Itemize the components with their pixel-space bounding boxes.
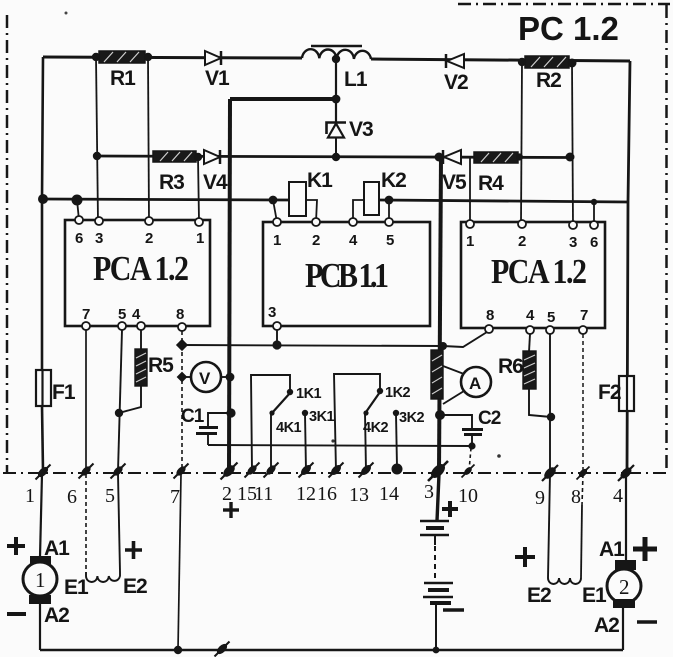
contact 4K1 pivot wire to terminal 11: [269, 410, 274, 415]
svg-text:3: 3: [268, 304, 276, 321]
svg-text:A: A: [469, 374, 481, 393]
pin 4 right PCA: [526, 326, 534, 334]
node V3 bottom: [332, 153, 340, 161]
node R2 left: [518, 58, 526, 66]
wire pin5 left down to terminal 5: [118, 330, 122, 471]
svg-text:V2: V2: [444, 71, 468, 94]
wire pin7 left down to terminal 6: [85, 330, 87, 471]
wire PCB pin3 to bus345: [276, 330, 278, 345]
wire bottom rail: [40, 649, 623, 651]
capacitor C2: [440, 408, 501, 446]
node R2 right: [568, 59, 577, 68]
svg-text:A2: A2: [594, 614, 619, 637]
svg-text:7: 7: [580, 307, 588, 324]
minus motor1: [7, 612, 26, 616]
node battery bottom rail: [433, 647, 440, 654]
svg-text:E1: E1: [582, 584, 607, 607]
contact 3K2 stub to terminal 14: [393, 410, 399, 416]
fuse F1: [36, 370, 76, 406]
terminal 3: [428, 461, 448, 481]
plus motor1: [7, 537, 25, 555]
svg-text:1K2: 1K2: [385, 385, 411, 401]
svg-text:1K1: 1K1: [296, 386, 322, 402]
node second rail left: [93, 152, 101, 160]
wire C2 dashed to terminal 10: [469, 448, 471, 471]
wire R1right to pin2 vertical: [148, 57, 149, 221]
wire K2 tap to PCB pin5: [388, 200, 390, 222]
wire R1left to pin3 vertical: [96, 57, 98, 221]
svg-text:1: 1: [466, 233, 474, 250]
node bus K2 tap: [385, 196, 394, 205]
wire top rail right part: [371, 59, 630, 61]
frame right dash-dot: [665, 5, 668, 473]
svg-text:4K2: 4K2: [363, 420, 389, 436]
pin 1 right PCA: [466, 220, 474, 228]
node R4 right: [516, 153, 523, 160]
terminal 10: [462, 465, 475, 478]
wire R5 bottom bend to pin5 wire: [119, 386, 141, 413]
svg-text:R3: R3: [159, 171, 184, 194]
pin 2 PCB: [312, 218, 320, 226]
svg-text:11: 11: [254, 483, 273, 505]
module PCA 1.2 right: [461, 222, 605, 328]
node bus pin6 right tap: [591, 199, 597, 205]
wire terminal 7 to bottom rail: [178, 474, 181, 650]
diode V5: [442, 150, 467, 194]
motor 1: [23, 556, 57, 604]
wire pin6 tap down: [77, 200, 79, 220]
terminal row dash-dot line: [3, 472, 667, 474]
terminal 12: [299, 463, 314, 478]
wire top right corner down through F2 to terminal 4: [627, 61, 630, 471]
svg-text:F2: F2: [598, 381, 621, 404]
plus motor2: [633, 537, 657, 561]
plus field1: [125, 541, 142, 559]
wire terminal 1 to motor 1: [40, 474, 42, 557]
wire left vertical rail: [42, 57, 43, 371]
svg-text:V3: V3: [349, 118, 373, 141]
svg-text:4: 4: [132, 306, 141, 323]
svg-text:V5: V5: [442, 171, 467, 194]
field winding motor1: [86, 572, 120, 582]
svg-text:2: 2: [222, 483, 232, 505]
svg-text:R1: R1: [110, 67, 136, 90]
wire K1 right lead to PCB pin2: [306, 200, 317, 222]
svg-text:5: 5: [118, 306, 126, 323]
pin 6 right PCA: [590, 221, 598, 229]
switch mark bottom rail: [215, 642, 230, 657]
wire motor1 to bottom rail: [39, 604, 41, 650]
node bus345 at mid vertical: [439, 342, 447, 350]
pin 7 right PCA: [579, 326, 587, 334]
svg-text:L1: L1: [344, 68, 368, 91]
wire thick mid vertical V5 to terminal 3: [439, 157, 441, 471]
node R1 right: [144, 53, 152, 61]
wire pin5 right down to terminal 9: [549, 334, 551, 471]
diode V4: [203, 150, 228, 194]
wire pin7 right dashed down to terminal 8: [582, 334, 584, 471]
svg-text:K2: K2: [381, 169, 406, 192]
contact blade K2: [366, 392, 380, 412]
svg-text:C1: C1: [181, 406, 205, 427]
svg-text:14: 14: [379, 483, 399, 505]
minus motor2: [637, 620, 657, 623]
svg-text:10: 10: [458, 485, 478, 507]
pin 3 left PCA: [95, 217, 103, 225]
field winding motor2: [548, 578, 581, 584]
pin 3 right PCA: [569, 221, 577, 229]
zener diode V3: [327, 118, 374, 156]
wire bus345: [182, 332, 487, 347]
contact blade K1: [272, 393, 290, 413]
pin 2 right PCA: [518, 220, 526, 228]
svg-text:C2: C2: [478, 408, 501, 429]
capacitor C1: [181, 406, 231, 445]
frame top dash-dot: [458, 3, 670, 6]
pin 1 left PCA: [195, 218, 203, 226]
module PCA 1.2 left: [65, 220, 210, 326]
wire thick link horizontal: [230, 97, 336, 101]
node bus K1 tap: [269, 196, 278, 205]
svg-text:1: 1: [25, 485, 35, 507]
wire terminal 4 to motor 2: [625, 474, 627, 561]
svg-text:2: 2: [518, 233, 526, 250]
pin 3 PCB: [273, 322, 281, 330]
svg-text:6: 6: [590, 234, 598, 251]
svg-text:3K1: 3K1: [309, 409, 335, 425]
wire terminal 6 dashed to field coil E1: [85, 474, 87, 572]
svg-text:4: 4: [349, 232, 358, 249]
svg-text:4: 4: [526, 307, 535, 324]
terminal 5: [111, 464, 126, 479]
pin 8 left PCA: [178, 323, 186, 331]
terminal 1: [36, 465, 51, 480]
wire R6 bottom bend to pin5 wire: [529, 389, 551, 417]
fuse F2: [598, 376, 634, 411]
resistor R4: [474, 152, 518, 195]
wire PCB pin4 to K2 left lead: [353, 200, 364, 222]
svg-text:7: 7: [170, 486, 180, 508]
contact group K2 frame: [334, 374, 380, 471]
wire bus left segment: [42, 199, 290, 200]
svg-text:5: 5: [386, 232, 394, 249]
terminal 8: [577, 467, 590, 480]
wire pin6 right tap down: [593, 202, 595, 225]
node bus at left rail: [38, 194, 48, 204]
pin 4 left PCA: [137, 322, 145, 330]
svg-text:8: 8: [486, 307, 494, 324]
svg-text:4K1: 4K1: [276, 420, 302, 436]
svg-text:A1: A1: [599, 538, 625, 561]
svg-text:5: 5: [105, 485, 115, 507]
svg-text:F1: F1: [52, 381, 76, 404]
wire terminal 5 to field coil E2: [118, 474, 120, 572]
svg-text:8: 8: [176, 306, 184, 323]
inductor L1: [302, 46, 371, 91]
relay coil K2: [364, 169, 406, 215]
plus below terminal 2: [223, 502, 239, 518]
wire terminal 8 to field coil E1 motor2: [582, 474, 583, 505]
voltmeter V: [184, 362, 229, 392]
svg-text:2: 2: [312, 232, 320, 249]
svg-text:E2: E2: [123, 575, 147, 598]
terminal 15: [245, 463, 260, 478]
svg-text:6: 6: [67, 486, 77, 508]
svg-text:K1: K1: [307, 169, 333, 192]
node bus pin6 tap: [72, 195, 83, 206]
scan speck: [331, 439, 334, 442]
wire V5 junction to pin1 right vertical: [469, 157, 471, 224]
svg-text:3: 3: [95, 230, 103, 247]
terminal 4: [618, 465, 634, 481]
resistor R2: [525, 56, 569, 92]
svg-text:PCA 1.2: PCA 1.2: [93, 249, 188, 287]
wire F1 to terminal 1: [42, 406, 43, 471]
svg-text:1: 1: [273, 232, 281, 249]
wire L1 tap down: [335, 59, 337, 124]
wire pin8 left dashed down to terminal 7: [181, 331, 183, 471]
node V right on thick rail: [226, 373, 235, 382]
resistor R3: [153, 151, 196, 194]
svg-text:R4: R4: [478, 172, 504, 195]
node C1 tap: [226, 408, 235, 417]
svg-text:3: 3: [569, 234, 577, 251]
svg-text:1: 1: [35, 568, 46, 592]
resistor R1: [99, 51, 145, 90]
node diamond bus345: [176, 339, 188, 351]
svg-text:12: 12: [296, 483, 316, 505]
wire thick left vertical to terminal 2: [229, 99, 230, 471]
scan speck: [65, 12, 68, 15]
wire second rail: [97, 156, 572, 158]
plus field2: [515, 547, 535, 567]
svg-text:E1: E1: [64, 576, 89, 599]
svg-text:7: 7: [82, 306, 90, 323]
svg-text:R2: R2: [536, 69, 561, 92]
svg-text:2: 2: [145, 230, 153, 247]
svg-text:2: 2: [619, 575, 630, 599]
wire top rail left part: [43, 57, 302, 58]
pin 2 left PCA: [145, 217, 153, 225]
node bottom rail term7: [174, 646, 182, 654]
pin 6 left PCA: [75, 216, 83, 224]
diode V1: [205, 51, 230, 90]
svg-text:R5: R5: [148, 354, 174, 377]
contact 1K1 fixed: [287, 389, 293, 395]
pin 5 left PCA: [118, 322, 126, 330]
terminal 9: [542, 465, 558, 481]
pin 1 PCB: [273, 218, 281, 226]
module PCB 1.1: [263, 222, 430, 326]
node L1 tap: [332, 55, 340, 63]
wire R2right to pin3 right vertical: [572, 63, 573, 225]
svg-text:V4: V4: [203, 171, 228, 194]
pin 4 PCB: [349, 218, 357, 226]
svg-text:V: V: [199, 369, 211, 388]
pin 7 left PCA: [82, 322, 90, 330]
terminal 14 dot: [392, 464, 403, 475]
node R1 left: [92, 53, 100, 61]
svg-text:R6: R6: [498, 355, 523, 378]
svg-text:3: 3: [424, 481, 434, 503]
relay coil K1: [289, 169, 333, 216]
node thick link at L1 tap line: [332, 95, 341, 104]
wire capacitor link rail y445: [208, 445, 472, 446]
ammeter A: [443, 366, 491, 404]
node PCB pin3 bus: [272, 340, 281, 349]
node V5 left: [435, 153, 444, 162]
svg-text:9: 9: [535, 487, 545, 509]
contact 1K2 fixed: [377, 388, 383, 394]
resistor R6: [498, 334, 536, 389]
node C2 bottom: [468, 442, 475, 449]
terminal 7: [174, 464, 189, 479]
contact 4K2 pivot wire to terminal 13: [363, 410, 368, 415]
motor 2: [607, 560, 641, 608]
svg-text:3K2: 3K2: [399, 410, 425, 426]
svg-text:PCA 1.2: PCA 1.2: [491, 252, 586, 290]
contact group K1 frame: [251, 375, 290, 471]
svg-text:V1: V1: [205, 67, 230, 90]
svg-text:1: 1: [196, 230, 204, 247]
node C2 tap: [435, 410, 445, 420]
wire terminal 9 to field coil E2 motor2: [548, 474, 550, 578]
frame left dash-dot: [6, 15, 9, 473]
node second rail right: [566, 153, 575, 162]
pin 8 right PCA: [485, 325, 493, 333]
svg-text:A2: A2: [44, 604, 69, 627]
pin 5 right PCA: [546, 326, 554, 334]
svg-text:4: 4: [613, 485, 623, 507]
svg-text:16: 16: [317, 483, 337, 505]
terminal 6: [79, 464, 94, 479]
wire bus tap to PCB pin1: [273, 200, 277, 222]
svg-text:5: 5: [547, 309, 555, 326]
node R5 join: [115, 409, 123, 417]
wire bus right segment: [379, 200, 628, 202]
scan speck: [497, 454, 501, 458]
svg-text:13: 13: [349, 484, 369, 506]
terminal 2: [221, 463, 238, 480]
wire R2left to pin2 right vertical: [521, 62, 522, 224]
node diamond V left: [177, 372, 188, 383]
pin 5 PCB: [385, 218, 393, 226]
svg-text:A1: A1: [44, 537, 70, 560]
svg-text:8: 8: [571, 486, 581, 508]
svg-text:PCB 1.1: PCB 1.1: [305, 256, 388, 294]
terminal 13: [359, 463, 374, 478]
svg-text:PC 1.2: PC 1.2: [518, 10, 619, 47]
svg-text:E2: E2: [527, 584, 551, 607]
shunt resistor: [431, 350, 443, 399]
node R3 right / V4 anode: [194, 153, 202, 161]
resistor R5: [135, 330, 174, 386]
terminal 16: [329, 463, 344, 478]
wire V4 to pin1 vertical: [198, 157, 199, 221]
node R6 join: [547, 413, 555, 421]
wire motor2 to bottom rail: [622, 608, 624, 650]
contact 3K1 stub to terminal 12: [302, 410, 308, 416]
battery: [420, 474, 464, 650]
terminal 11: [264, 463, 279, 478]
svg-text:6: 6: [75, 230, 83, 247]
diode V2: [444, 54, 468, 94]
